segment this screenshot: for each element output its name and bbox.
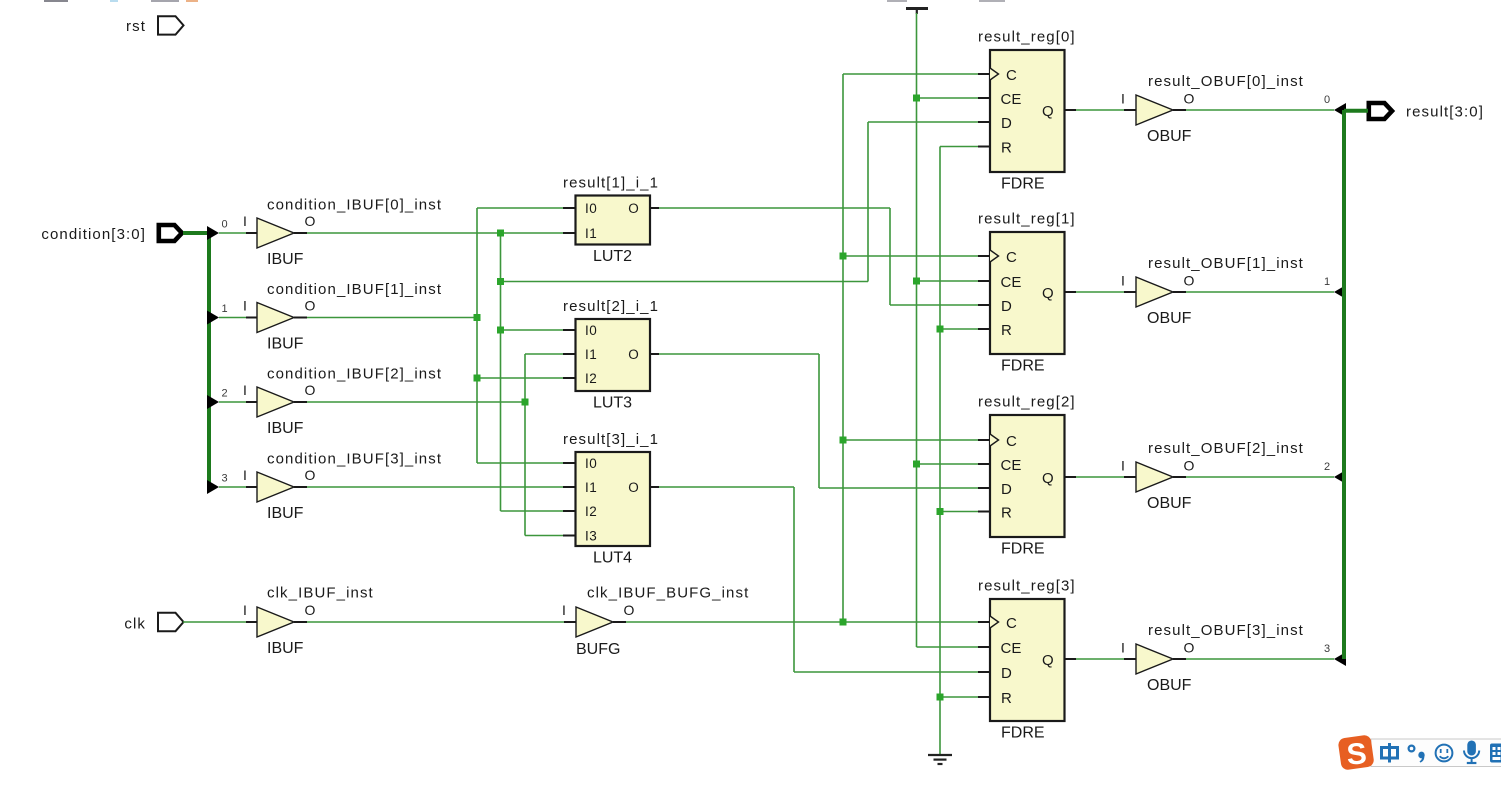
junction condition_IBUF[2] at row: [522, 399, 529, 406]
wire result_OBUF[0] to bus: [1173, 109, 1334, 111]
svg-text:I: I: [1121, 458, 1125, 474]
svg-text:R: R: [1001, 690, 1012, 707]
port condition[3:0]: [41, 225, 182, 243]
wire result bus vertical: [1342, 110, 1346, 659]
wire net condition_IBUF[2] vertical x525: [525, 354, 563, 536]
screen artifact top fragments: [44, 0, 1005, 2]
svg-text:3: 3: [1324, 643, 1330, 655]
wire net result[3]_i_1 output to FDRE3 D: [659, 487, 978, 672]
wire result_reg[0] Q to OBUF: [1076, 109, 1136, 111]
svg-text:result[2]_i_1: result[2]_i_1: [563, 298, 659, 315]
buffer result_OBUF[3]_inst (OBUF): [1121, 622, 1304, 694]
svg-text:condition_IBUF[0]_inst: condition_IBUF[0]_inst: [267, 197, 442, 214]
wire result_OBUF[3] to bus: [1173, 658, 1334, 660]
svg-text:S: S: [1346, 737, 1368, 771]
svg-text:I: I: [243, 213, 247, 229]
svg-text:O: O: [305, 602, 316, 618]
ground symbol: [928, 755, 952, 764]
buffer condition_IBUF[3]_inst (IBUF): [243, 451, 442, 523]
svg-text:O: O: [305, 298, 316, 314]
svg-text:result_OBUF[0]_inst: result_OBUF[0]_inst: [1148, 73, 1304, 90]
icon keyboard: [1490, 744, 1501, 763]
wire condition_IBUF[3] output stub: [294, 486, 307, 488]
wire condition[1] to IBUF: [219, 317, 257, 319]
taskbar input-method toolbar: [1371, 739, 1501, 767]
junction VCC at FDRE1 CE: [913, 278, 920, 285]
svg-text:OBUF: OBUF: [1147, 495, 1192, 512]
svg-text:I0: I0: [585, 201, 597, 216]
node result[1] bus tap: [1324, 276, 1346, 299]
junction condition_IBUF[1] at LUT3 I2: [474, 375, 481, 382]
wire net result[1]_i_1 output to FDRE1 D: [659, 208, 978, 305]
junction gnd at FDRE2 R: [937, 508, 944, 515]
svg-text:IBUF: IBUF: [267, 336, 304, 353]
register result_reg[1] (FDRE): [978, 211, 1076, 375]
wire VCC trunk x916.5 to CE pins: [917, 13, 979, 647]
svg-text:I3: I3: [585, 529, 597, 544]
svg-text:CE: CE: [1001, 640, 1022, 657]
wire net result[2]_i_1 output to FDRE2 D: [659, 354, 978, 488]
register result_reg[0] (FDRE): [978, 29, 1076, 193]
svg-text:LUT4: LUT4: [593, 550, 632, 567]
svg-text:O: O: [305, 213, 316, 229]
svg-text:I0: I0: [585, 456, 597, 471]
svg-text:O: O: [1184, 640, 1195, 656]
icon microphone: [1464, 741, 1479, 764]
svg-text:I0: I0: [585, 323, 597, 338]
svg-text:0: 0: [221, 219, 227, 231]
buffer clk_IBUF_inst (IBUF): [243, 585, 374, 658]
svg-text:I: I: [243, 602, 247, 618]
svg-text:1: 1: [221, 303, 227, 315]
svg-text:condition[3:0]: condition[3:0]: [41, 226, 146, 243]
junction clock at FDRE2 C: [840, 437, 847, 444]
svg-text:C: C: [1006, 67, 1017, 84]
svg-text:OBUF: OBUF: [1147, 677, 1192, 694]
svg-text:IBUF: IBUF: [267, 251, 304, 268]
svg-text:O: O: [305, 382, 316, 398]
wire net condition_IBUF[1] row: [307, 317, 477, 319]
svg-text:R: R: [1001, 140, 1012, 157]
buffer clk_IBUF_BUFG_inst (BUFG): [562, 585, 749, 659]
wire clk_IBUF_BUFG net to FDRE3 C: [613, 621, 978, 623]
junction condition_IBUF[0] to D0 branch: [497, 278, 504, 285]
svg-text:OBUF: OBUF: [1147, 310, 1192, 327]
svg-text:1: 1: [1324, 276, 1330, 288]
svg-text:result_reg[1]: result_reg[1]: [978, 211, 1076, 228]
power VCC symbol: [906, 9, 928, 15]
svg-text:D: D: [1001, 115, 1012, 132]
port clk: [124, 613, 183, 633]
junction clock at FDRE1 C: [840, 253, 847, 260]
svg-text:I: I: [1121, 640, 1125, 656]
sogou logo: [1338, 734, 1376, 773]
svg-text:I: I: [1121, 273, 1125, 289]
wire clk_IBUF net: [294, 621, 576, 623]
wire clk port to IBUF: [183, 621, 257, 623]
buffer condition_IBUF[2]_inst (IBUF): [243, 366, 442, 438]
wire net condition_IBUF[2] row: [307, 401, 525, 403]
svg-text:result[1]_i_1: result[1]_i_1: [563, 175, 659, 192]
svg-text:O: O: [628, 201, 639, 216]
svg-text:C: C: [1006, 433, 1017, 450]
register result_reg[2] (FDRE): [978, 394, 1076, 558]
svg-text:OBUF: OBUF: [1147, 128, 1192, 145]
svg-text:condition_IBUF[2]_inst: condition_IBUF[2]_inst: [267, 366, 442, 383]
svg-text:IBUF: IBUF: [267, 640, 304, 657]
svg-text:O: O: [628, 347, 639, 362]
svg-text:I: I: [1121, 91, 1125, 107]
node condition[2] bus tap: [207, 388, 228, 410]
buffer condition_IBUF[0]_inst (IBUF): [243, 197, 442, 269]
svg-text:O: O: [305, 467, 316, 483]
svg-text:R: R: [1001, 505, 1012, 522]
svg-text:CE: CE: [1001, 274, 1022, 291]
junction VCC at FDRE0 CE: [913, 95, 920, 102]
wire condition_IBUF[2] output stub: [294, 401, 307, 403]
svg-text:Q: Q: [1042, 285, 1054, 302]
node condition[0] bus tap: [207, 219, 228, 241]
svg-text:I2: I2: [585, 504, 597, 519]
svg-text:D: D: [1001, 481, 1012, 498]
svg-text:Q: Q: [1042, 103, 1054, 120]
svg-text:O: O: [1184, 273, 1195, 289]
wire net condition_IBUF[0] to FDRE0 D: [868, 122, 978, 282]
svg-text:I: I: [243, 298, 247, 314]
svg-text:I2: I2: [585, 371, 597, 386]
LUT result[2]_i_1 (LUT3): [563, 298, 659, 412]
svg-text:LUT3: LUT3: [593, 395, 632, 412]
wire result_reg[3] Q to OBUF: [1076, 658, 1136, 660]
svg-text:CE: CE: [1001, 91, 1022, 108]
svg-text:I1: I1: [585, 347, 597, 362]
junction clock at BUFG row: [840, 619, 847, 626]
junction VCC at FDRE2 CE: [913, 461, 920, 468]
port rst: [126, 16, 183, 35]
wire result_reg[2] Q to OBUF: [1076, 476, 1136, 478]
svg-text:O: O: [628, 480, 639, 495]
svg-text:result_reg[2]: result_reg[2]: [978, 394, 1076, 411]
svg-text:0: 0: [1324, 94, 1330, 106]
svg-text:C: C: [1006, 249, 1017, 266]
svg-text:Q: Q: [1042, 652, 1054, 669]
svg-text:result_OBUF[3]_inst: result_OBUF[3]_inst: [1148, 622, 1304, 639]
node result[3] bus tap: [1324, 643, 1346, 666]
buffer result_OBUF[1]_inst (OBUF): [1121, 255, 1304, 327]
svg-text:I: I: [562, 602, 566, 618]
wire result_OBUF[1] to bus: [1173, 291, 1334, 293]
svg-text:D: D: [1001, 298, 1012, 315]
wire condition[3] to IBUF: [219, 486, 257, 488]
wire condition_IBUF[0] output stub: [294, 232, 307, 234]
svg-text:condition_IBUF[1]_inst: condition_IBUF[1]_inst: [267, 281, 442, 298]
svg-text:clk: clk: [124, 616, 146, 633]
svg-text:CE: CE: [1001, 457, 1022, 474]
junction condition_IBUF[0] at LUT3 I0: [497, 327, 504, 334]
wire condition_IBUF[1] output stub: [294, 317, 307, 319]
wire clock trunk x843: [843, 74, 978, 622]
node result[2] bus tap: [1324, 461, 1346, 484]
LUT result[3]_i_1 (LUT4): [563, 431, 659, 567]
junction condition_IBUF[0] at row: [497, 230, 504, 237]
buffer result_OBUF[0]_inst (OBUF): [1121, 73, 1304, 145]
svg-text:result_OBUF[1]_inst: result_OBUF[1]_inst: [1148, 255, 1304, 272]
svg-text:I: I: [243, 467, 247, 483]
svg-text:R: R: [1001, 322, 1012, 339]
icon punctuation: [1409, 746, 1425, 763]
svg-text:LUT2: LUT2: [593, 248, 632, 265]
svg-text:result[3]_i_1: result[3]_i_1: [563, 431, 659, 448]
node condition[3] bus tap: [207, 473, 228, 495]
icon smiley: [1436, 745, 1453, 762]
svg-text:I1: I1: [585, 480, 597, 495]
wire reset trunk x940 to R pins: [940, 147, 978, 755]
icon zhong: [1382, 743, 1398, 763]
LUT result[1]_i_1 (LUT2): [563, 175, 659, 266]
svg-text:FDRE: FDRE: [1001, 725, 1045, 742]
wire condition[0] to IBUF: [219, 232, 257, 234]
svg-text:result[3:0]: result[3:0]: [1406, 104, 1484, 121]
node result[0] bus tap: [1324, 94, 1346, 117]
buffer result_OBUF[2]_inst (OBUF): [1121, 440, 1304, 512]
wire net condition_IBUF[0] row: [307, 232, 563, 234]
svg-text:I1: I1: [585, 226, 597, 241]
wire condition[2] to IBUF: [219, 401, 257, 403]
svg-text:result_reg[0]: result_reg[0]: [978, 29, 1076, 46]
wire condition bus stem: [183, 231, 209, 235]
svg-text:I: I: [243, 382, 247, 398]
wire net condition_IBUF[1] vertical x477: [477, 208, 563, 463]
svg-text:O: O: [1184, 91, 1195, 107]
node condition[1] bus tap: [207, 303, 228, 325]
svg-text:FDRE: FDRE: [1001, 358, 1045, 375]
svg-text:clk_IBUF_BUFG_inst: clk_IBUF_BUFG_inst: [587, 585, 749, 602]
svg-text:result_reg[3]: result_reg[3]: [978, 578, 1076, 595]
wire result bus stem: [1344, 109, 1368, 113]
svg-text:2: 2: [221, 388, 227, 400]
port result[3:0]: [1369, 103, 1484, 121]
svg-text:O: O: [624, 602, 635, 618]
wire result_reg[1] Q to OBUF: [1076, 291, 1136, 293]
svg-text:clk_IBUF_inst: clk_IBUF_inst: [267, 585, 374, 602]
svg-text:Q: Q: [1042, 470, 1054, 487]
junction condition_IBUF[1] at row: [474, 314, 481, 321]
wire net condition_IBUF[0] vertical x500: [501, 233, 869, 511]
wire condition bus vertical: [207, 231, 211, 487]
svg-text:3: 3: [221, 473, 227, 485]
register result_reg[3] (FDRE): [978, 578, 1076, 742]
buffer condition_IBUF[1]_inst (IBUF): [243, 281, 442, 353]
wire net condition_IBUF[3] row (to LUT4 I1): [307, 486, 563, 488]
svg-text:FDRE: FDRE: [1001, 541, 1045, 558]
svg-text:O: O: [1184, 458, 1195, 474]
svg-text:result_OBUF[2]_inst: result_OBUF[2]_inst: [1148, 440, 1304, 457]
svg-text:2: 2: [1324, 461, 1330, 473]
svg-text:IBUF: IBUF: [267, 505, 304, 522]
svg-text:IBUF: IBUF: [267, 420, 304, 437]
svg-text:condition_IBUF[3]_inst: condition_IBUF[3]_inst: [267, 451, 442, 468]
svg-text:D: D: [1001, 665, 1012, 682]
svg-text:BUFG: BUFG: [576, 641, 620, 658]
junction gnd at FDRE3 R: [937, 694, 944, 701]
junction gnd at FDRE1 R: [937, 326, 944, 333]
wire result_OBUF[2] to bus: [1173, 476, 1334, 478]
svg-text:FDRE: FDRE: [1001, 176, 1045, 193]
svg-text:C: C: [1006, 615, 1017, 632]
svg-text:rst: rst: [126, 18, 146, 35]
